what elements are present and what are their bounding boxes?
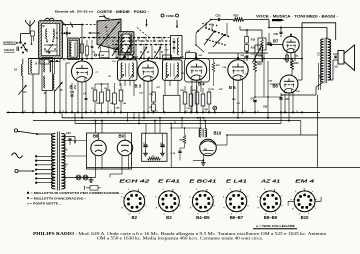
rail junction dots [54, 58, 303, 60]
tube B4 [186, 57, 206, 86]
label VOCE MUSICA TONI MEDI BASSI [256, 15, 338, 19]
C46 cap [279, 93, 289, 112]
junction cap 67 [61, 27, 71, 38]
svg-text:B6–B7: B6–B7 [230, 215, 244, 220]
voltage selector arrow [15, 169, 35, 172]
B10 coil [199, 129, 207, 138]
transformer core [57, 132, 59, 191]
antenna switch contacts [17, 31, 34, 54]
B10 ground [193, 155, 206, 165]
tone switch wafer [195, 23, 229, 53]
C45 cap [251, 96, 257, 112]
capacitor C31 [211, 13, 233, 21]
svg-text:B10: B10 [214, 130, 222, 135]
tone box R20 [258, 38, 272, 50]
coil bumps on top of box [45, 18, 54, 20]
caption line 2 [97, 237, 263, 241]
label CORTE MEDIE FONO [97, 10, 149, 14]
B2 pin wires [78, 81, 87, 118]
transformer secondary [61, 134, 65, 190]
label LOCALE [4, 48, 15, 52]
switch shaft mark [99, 15, 285, 22]
switch contact dots row [83, 37, 167, 46]
AC symbol [12, 153, 23, 158]
label NORMALE [3, 41, 19, 45]
label Banda all. 25-31 m [55, 10, 93, 14]
resistor R27 [233, 13, 269, 21]
IF transformer 2 [163, 58, 183, 80]
B6 pin wires [270, 58, 303, 121]
svg-text:E L41: E L41 [226, 179, 248, 184]
small boxes 80-88 [80, 40, 93, 59]
svg-text:C48: C48 [101, 54, 104, 57]
capacitor C61 [160, 133, 165, 156]
tube base EF41 B3 [155, 179, 181, 221]
fono arrows [145, 19, 178, 28]
IF2 pins [165, 80, 178, 95]
R43 resistor [179, 127, 186, 144]
svg-text:AZ 41: AZ 41 [259, 179, 280, 184]
coupling box blank [163, 95, 180, 112]
svg-text:Banda all. 25-31 m: Banda all. 25-31 m [55, 10, 93, 14]
svg-text:S23: S23 [319, 51, 321, 56]
magic eye loop wire [216, 134, 317, 145]
svg-text:× = PONTE NOTTE ...: × = PONTE NOTTE ... [27, 201, 62, 205]
coil 15 [14, 59, 23, 113]
antenna coil unit box [39, 21, 63, 59]
svg-text:B8–B9: B8–B9 [264, 215, 278, 220]
jack circle [213, 106, 217, 112]
svg-text:ECH 42: ECH 42 [119, 179, 150, 184]
legend line 1 [27, 191, 124, 195]
resistor R40 [148, 155, 161, 160]
svg-text:FONO: FONO [166, 14, 175, 18]
osc arrows NE [121, 56, 135, 60]
coil 17 [53, 59, 54, 113]
resistor R18 [245, 37, 256, 44]
IF transformer 1 [118, 57, 138, 80]
supply line 4 [75, 112, 281, 133]
ground bus [7, 110, 321, 113]
svg-text:= MOLLETTA D'ANCORAGGIO –: = MOLLETTA D'ANCORAGGIO – [31, 196, 88, 200]
mains switch [14, 129, 52, 135]
B3 pins [144, 59, 152, 118]
tuning capacitor gang [97, 19, 121, 51]
oscillator coil box [119, 32, 135, 56]
capacitor C38 [274, 28, 283, 38]
label 13 [65, 164, 68, 167]
legend line 2 [27, 196, 87, 200]
C64 capacitor [171, 144, 185, 160]
tube B10 [200, 139, 217, 156]
svg-text:R25: R25 [294, 63, 299, 65]
wires left coils [60, 59, 70, 113]
terminal FONO [161, 14, 179, 18]
svg-text:CORTE · MEDIE · FONO ·: CORTE · MEDIE · FONO · [97, 10, 149, 14]
svg-text:R: R [153, 155, 155, 158]
capacitor C32 C33 [244, 52, 256, 59]
padder boxes bottom [163, 51, 196, 60]
tube B6 [273, 75, 299, 93]
caption line 1 [33, 232, 327, 237]
coil box 16 [42, 58, 53, 113]
tube base AZ41 B8-B9 [257, 179, 283, 221]
svg-text:B 3: B 3 [135, 83, 142, 88]
svg-text:= MOLLETTA DI CONTATTO PER COM: = MOLLETTA DI CONTATTO PER COMMUTAZIONE … [31, 191, 124, 195]
B7 pin wires [284, 52, 296, 65]
svg-text:E BC41: E BC41 [189, 179, 217, 184]
speaker [333, 45, 355, 71]
rectifier box [87, 133, 132, 169]
dial lamps [62, 175, 95, 183]
svg-text:5Ω: 5Ω [335, 67, 338, 69]
label 12 [65, 149, 68, 152]
secondary wires right [62, 141, 86, 157]
svg-text:C31: C31 [216, 13, 222, 17]
C12 cluster [92, 45, 119, 59]
box A below parts [40, 60, 60, 65]
svg-text:C41: C41 [187, 107, 190, 110]
tube B3 [135, 58, 159, 88]
svg-text:15: 15 [14, 68, 18, 72]
wires 264 268 [255, 53, 281, 119]
legend line 3 [27, 201, 62, 205]
svg-text:B 2: B 2 [70, 84, 77, 89]
tube B5 [228, 57, 248, 90]
svg-text:B4–B5: B4–B5 [196, 215, 210, 220]
svg-text:C38: C38 [274, 33, 279, 36]
box B internals [43, 24, 58, 55]
R23 resistor [254, 59, 263, 97]
svg-text:B 5: B 5 [229, 85, 236, 90]
HT rail [28, 58, 302, 60]
scatter labels mid [63, 55, 301, 111]
bus zone stubs [127, 112, 183, 133]
tube base EBC41 B4-B5 [189, 179, 217, 221]
svg-text:NORMALE: NORMALE [3, 41, 16, 45]
trimmer C8 [55, 82, 64, 92]
svg-text:C49: C49 [123, 102, 126, 105]
R5 R6 cluster [91, 83, 123, 112]
svg-text:B2: B2 [132, 215, 138, 220]
wire B6 plate loop [302, 23, 336, 59]
switch lower dots [116, 51, 163, 58]
B2 grid cap wire [63, 24, 83, 59]
svg-text:VOCE · MUSICA · TONI MEDI · BA: VOCE · MUSICA · TONI MEDI · BASSI · [256, 15, 338, 19]
svg-text:C26: C26 [66, 132, 71, 135]
svg-text:R18: R18 [251, 40, 256, 42]
supply line 3 [33, 120, 301, 135]
svg-text:OM a 550 e 1630 kc. Media freq: OM a 550 e 1630 kc. Media frequenza 460 … [97, 237, 263, 241]
tube base EM4 B10 [288, 179, 321, 221]
rail 53 [208, 52, 268, 54]
trimmer C4 [19, 85, 28, 95]
oscillator padder box [165, 36, 183, 58]
terminal strip [85, 186, 102, 191]
svg-text:B9: B9 [119, 134, 125, 139]
svg-text:C58: C58 [263, 106, 268, 108]
output transformer [319, 38, 331, 84]
svg-text:EM 4: EM 4 [295, 179, 315, 184]
note non collegare [253, 224, 297, 229]
rectifier feeds [96, 121, 123, 178]
separator line [87, 167, 360, 169]
svg-text:B10: B10 [301, 215, 309, 220]
svg-text:E F41: E F41 [158, 179, 181, 184]
wire C31 switch arm [196, 19, 212, 33]
B4 shield box [185, 59, 210, 83]
switch arms [112, 45, 161, 61]
OPT secondary wires [316, 60, 333, 95]
capacitor C10 [70, 83, 75, 112]
AVC arrow line [89, 32, 101, 34]
B5 pins [234, 53, 245, 118]
primary taps [35, 155, 54, 184]
tone wires [240, 26, 262, 61]
detector network [180, 86, 211, 112]
band switch dashed linkage [63, 25, 170, 45]
tube B8 [91, 133, 106, 169]
coil box 14 [29, 59, 40, 113]
resistor R19 [245, 45, 256, 52]
capacitor C60 [143, 133, 148, 156]
IF1 pins [120, 80, 134, 96]
tube B2 [70, 58, 93, 89]
svg-text:B 4: B 4 [198, 81, 205, 86]
wire top frame B7 [268, 20, 327, 40]
B4 pins [192, 53, 201, 112]
svg-text:B7: B7 [273, 38, 279, 43]
switch drop wires [120, 38, 166, 58]
svg-text:R35: R35 [211, 89, 214, 91]
svg-text:R27: R27 [234, 13, 240, 17]
filter feeds [154, 121, 156, 134]
svg-text:B8: B8 [93, 134, 99, 139]
wire box A to grid cap [60, 20, 73, 28]
svg-text:B3: B3 [166, 215, 172, 220]
filter box [142, 133, 167, 161]
B7 left network [253, 33, 283, 63]
svg-text:e = NON COLLEGARE: e = NON COLLEGARE [256, 224, 295, 228]
svg-text:LOCALE: LOCALE [4, 48, 15, 52]
RF coil box [68, 38, 80, 60]
antenna [26, 20, 35, 34]
B10 feeds [170, 117, 205, 168]
transformer primary [52, 134, 56, 190]
tube B9 [117, 133, 132, 169]
tube B7 [273, 34, 299, 53]
label B10 [214, 130, 222, 135]
R7 R9 boxes [149, 92, 155, 112]
resistor R28 [212, 59, 220, 86]
tube base ECH42 B2 [119, 179, 150, 221]
supply line 2 [62, 112, 360, 118]
wire OPT return [281, 94, 317, 167]
tube base EL41 B6-B7 [223, 179, 249, 221]
R25 resistor [291, 59, 300, 76]
svg-text:R23: R23 [257, 64, 262, 66]
capacitor C26 [62, 132, 76, 145]
